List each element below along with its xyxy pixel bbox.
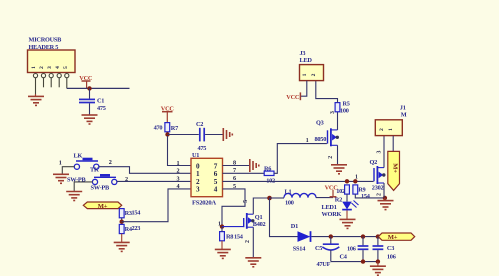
ground at TK bbox=[66, 192, 82, 201]
junction R3/R4 bbox=[120, 220, 124, 224]
svg-text:3: 3 bbox=[376, 151, 382, 154]
svg-text:100: 100 bbox=[340, 108, 349, 115]
capacitor C4 bbox=[362, 237, 364, 246]
svg-text:R8: R8 bbox=[226, 234, 233, 241]
svg-text:8050: 8050 bbox=[315, 136, 327, 143]
ground at R8 bbox=[215, 249, 231, 258]
svg-text:M: M bbox=[401, 112, 407, 119]
wire R7 junction down to U1 pin1 bbox=[168, 136, 192, 166]
svg-text:L1: L1 bbox=[285, 188, 292, 195]
svg-text:1: 1 bbox=[306, 138, 309, 144]
svg-text:LED: LED bbox=[300, 57, 313, 64]
wire U1 pin7 to R6 bbox=[223, 172, 265, 174]
svg-text:WORK: WORK bbox=[322, 211, 342, 218]
svg-text:J1: J1 bbox=[400, 104, 406, 111]
svg-text:1: 1 bbox=[355, 174, 358, 180]
wire J1 pin to M+ hexagon bbox=[392, 136, 394, 152]
wire LED1 to ground bbox=[346, 210, 348, 219]
wire R3 to R4 bbox=[121, 218, 123, 225]
svg-text:C2: C2 bbox=[196, 121, 203, 128]
wire Q2 drain to J1 bbox=[383, 136, 385, 168]
junction R7/C2 bbox=[165, 132, 169, 136]
capacitor C2 bbox=[199, 128, 201, 142]
svg-text:Q3: Q3 bbox=[316, 120, 324, 127]
wire R5 to J3 pin2 bbox=[316, 81, 338, 103]
wire R6 to Q3 gate bbox=[274, 144, 327, 174]
svg-text:47UF: 47UF bbox=[317, 261, 331, 268]
junction R9 on pin6 net bbox=[353, 179, 357, 183]
wire R3/R4 junction to U1 pin4 bbox=[122, 189, 191, 222]
svg-text:LED1: LED1 bbox=[322, 204, 337, 211]
wire TK pin2 to U1 pin3 bbox=[117, 180, 191, 182]
resistor R3 bbox=[119, 209, 124, 218]
IC U1 body bbox=[191, 158, 223, 196]
resistor R6 bbox=[264, 171, 274, 175]
connector J2 pin stubs bbox=[36, 78, 67, 94]
svg-text:154: 154 bbox=[132, 209, 142, 216]
junction Q1 gate / R8 bbox=[220, 224, 224, 228]
svg-text:2: 2 bbox=[377, 193, 383, 196]
connector J2 pin circles bbox=[33, 74, 69, 78]
connector J3 body bbox=[300, 65, 324, 81]
junction bottom rail C4 bbox=[361, 259, 365, 263]
svg-text:C4: C4 bbox=[340, 253, 348, 260]
wire C2 to ground bbox=[205, 134, 223, 136]
ground at LK bbox=[53, 174, 69, 183]
svg-text:2302: 2302 bbox=[372, 185, 384, 192]
svg-text:C1: C1 bbox=[97, 98, 104, 105]
ground at C1 bbox=[82, 115, 98, 124]
switch TK bbox=[92, 175, 117, 184]
wire U1 pin8 to ground bbox=[223, 165, 250, 167]
svg-text:1: 1 bbox=[218, 221, 221, 227]
wire Q3 source to ground bbox=[337, 145, 339, 164]
svg-text:R2: R2 bbox=[335, 196, 342, 203]
ground at U1 pin8 bbox=[250, 159, 259, 172]
svg-text:2: 2 bbox=[245, 240, 251, 243]
wire junction down to D1 bbox=[270, 198, 298, 237]
svg-text:M+: M+ bbox=[388, 234, 398, 241]
inductor L1 bbox=[284, 193, 316, 197]
svg-text:R7: R7 bbox=[171, 125, 178, 132]
IC U1 right pin names bbox=[214, 162, 218, 193]
svg-text:5: 5 bbox=[243, 200, 249, 203]
svg-text:Q2: Q2 bbox=[370, 159, 378, 166]
wire Q1 drain up bbox=[253, 198, 269, 214]
svg-text:4: 4 bbox=[177, 183, 180, 190]
svg-text:475: 475 bbox=[198, 145, 207, 152]
junction C4 bbox=[361, 234, 365, 238]
wire VBUS rail bbox=[67, 87, 130, 89]
svg-text:106: 106 bbox=[347, 246, 356, 253]
LED LED1 bbox=[346, 194, 348, 202]
svg-text:102: 102 bbox=[266, 177, 275, 184]
svg-text:102: 102 bbox=[336, 188, 345, 195]
svg-text:3: 3 bbox=[177, 175, 180, 182]
svg-text:M+: M+ bbox=[392, 163, 399, 173]
connector J1 body bbox=[375, 120, 402, 136]
resistor R8 bbox=[220, 232, 225, 241]
svg-text:B402: B402 bbox=[253, 221, 266, 228]
svg-text:1: 1 bbox=[59, 160, 62, 167]
svg-text:LK: LK bbox=[74, 152, 83, 159]
wire Q2 source down bbox=[383, 183, 385, 198]
resistor R9 bbox=[353, 185, 358, 194]
junction R2 on pin6 net bbox=[345, 179, 349, 183]
junction C3 bbox=[376, 234, 380, 238]
ground at Q1 source bbox=[245, 258, 261, 267]
wire bottom rail bbox=[331, 261, 378, 263]
ground at R4 bbox=[114, 242, 130, 251]
svg-text:2: 2 bbox=[177, 168, 180, 175]
wire R9 to Q2 source junction bbox=[355, 194, 385, 198]
ground right of C2 bbox=[223, 128, 232, 141]
ground at LED1 bbox=[340, 219, 356, 228]
capacitor C5 bbox=[330, 237, 332, 244]
svg-text:J3: J3 bbox=[300, 50, 306, 57]
svg-text:470: 470 bbox=[154, 124, 163, 131]
resistor R4 bbox=[119, 224, 124, 233]
svg-text:R5: R5 bbox=[343, 101, 350, 108]
svg-text:SS14: SS14 bbox=[293, 245, 306, 252]
resistor R7 bbox=[165, 123, 170, 132]
svg-text:3: 3 bbox=[330, 111, 336, 114]
wire Q1 source to ground bbox=[252, 227, 254, 257]
connector J2 MICROUSB body bbox=[28, 50, 76, 73]
wire Q3 drain to R5 bbox=[337, 112, 339, 130]
svg-text:VCC: VCC bbox=[286, 94, 300, 101]
wire junction to L1 bbox=[270, 197, 285, 199]
svg-text:154: 154 bbox=[361, 193, 371, 200]
svg-text:C5: C5 bbox=[315, 245, 322, 252]
junction bottom rail C3 bbox=[376, 259, 380, 263]
diode D1 bbox=[298, 231, 311, 242]
resistor R5 bbox=[335, 103, 340, 112]
svg-text:1: 1 bbox=[177, 160, 180, 167]
ground at Q3 bbox=[331, 165, 347, 174]
capacitor C3 bbox=[377, 237, 379, 246]
IC U1 right pin numbers bbox=[233, 159, 236, 189]
junction Q1 drain / L1 / D1 bbox=[267, 196, 272, 201]
svg-text:D1: D1 bbox=[291, 223, 298, 230]
svg-text:2: 2 bbox=[109, 159, 112, 166]
junction VBUS/C1 bbox=[87, 86, 91, 90]
wire TK pin1 to ground bbox=[74, 182, 92, 191]
wire R8 to ground bbox=[221, 227, 223, 232]
svg-text:M+: M+ bbox=[98, 203, 108, 210]
junction Q2 source bbox=[383, 196, 387, 200]
switch LK bbox=[74, 159, 99, 169]
wire L1 to VCC bbox=[316, 197, 333, 199]
svg-text:154: 154 bbox=[234, 234, 244, 241]
svg-text:FS2020A: FS2020A bbox=[192, 199, 216, 206]
power port M+ (vertical) bbox=[388, 151, 400, 190]
transistor Q1 bbox=[244, 213, 254, 229]
svg-text:1: 1 bbox=[388, 128, 394, 131]
svg-text:TK: TK bbox=[90, 167, 99, 174]
wire LK pin2 to U1 pin2 bbox=[99, 167, 191, 174]
wire junction to C2 bbox=[168, 134, 199, 136]
junction C5 bbox=[329, 234, 333, 238]
wire J3 pin1 to VCC bbox=[301, 81, 307, 96]
wire U1 pin6 to Q2 gate bbox=[223, 180, 374, 182]
svg-text:223: 223 bbox=[132, 225, 141, 232]
svg-text:100: 100 bbox=[285, 200, 294, 207]
resistor R2 bbox=[345, 185, 350, 194]
svg-text:475: 475 bbox=[97, 105, 106, 112]
power port M+ (right) bbox=[378, 233, 414, 241]
svg-text:SW-PB: SW-PB bbox=[91, 185, 111, 192]
wire R7 to junction bbox=[166, 132, 168, 136]
svg-text:106: 106 bbox=[387, 254, 396, 261]
ground at MICROUSB pin1 bbox=[35, 94, 37, 96]
wire LK pin1 to ground bbox=[62, 167, 74, 174]
wire D1 to M+ rail bbox=[311, 236, 378, 238]
IC U1 left pin numbers bbox=[177, 160, 180, 190]
ground at bottom rail bbox=[377, 262, 379, 266]
svg-text:MICROUSB: MICROUSB bbox=[29, 37, 63, 44]
wire C1 bottom bbox=[89, 103, 91, 115]
wire C1 top bbox=[89, 88, 91, 98]
svg-text:2: 2 bbox=[328, 156, 334, 159]
wire gate junction to Q1 bbox=[222, 226, 243, 228]
IC U1 left pin names bbox=[196, 162, 200, 193]
ground at Q2 source bbox=[384, 198, 386, 201]
capacitor C1 bbox=[79, 98, 95, 100]
svg-text:C3: C3 bbox=[387, 245, 394, 252]
wire U1 pin5 to Q1 gate bbox=[222, 189, 245, 227]
power port M+ (left) bbox=[83, 202, 121, 210]
svg-text:R6: R6 bbox=[264, 166, 271, 173]
wire R4 to ground bbox=[121, 234, 123, 243]
